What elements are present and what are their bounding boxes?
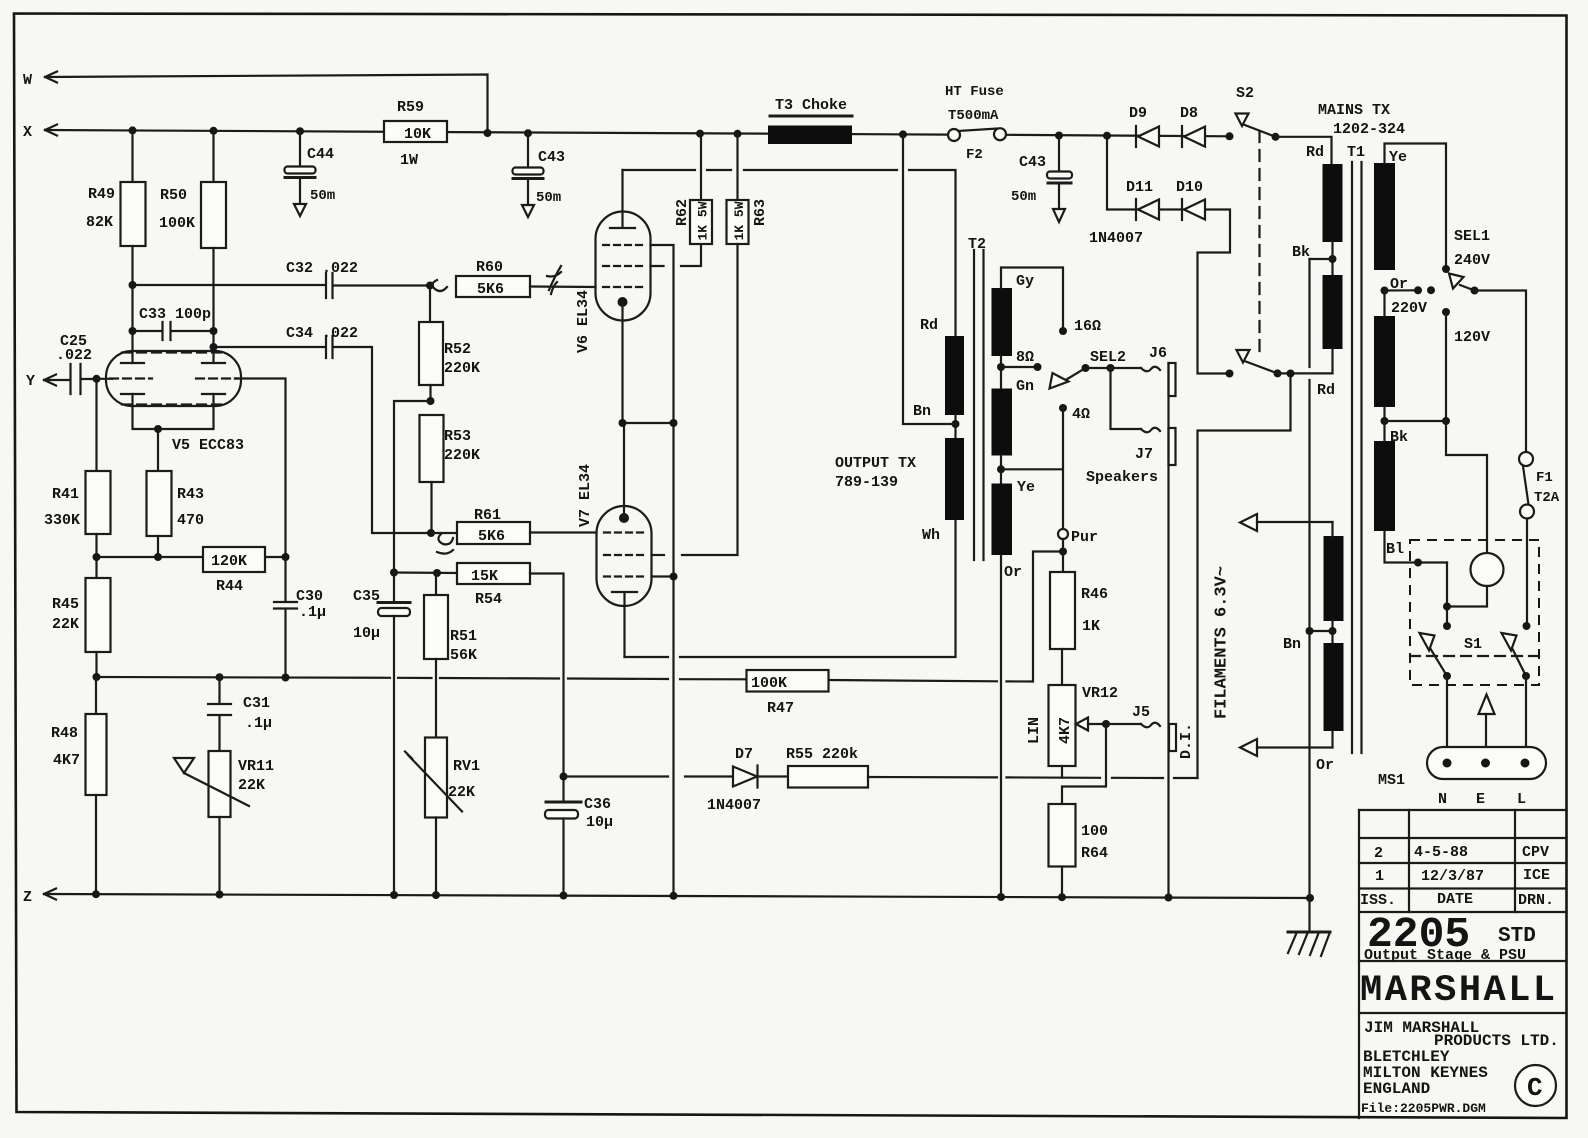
svg-text:V5 ECC83: V5 ECC83 xyxy=(172,437,244,454)
capacitor C34 xyxy=(214,325,432,533)
svg-text:22K: 22K xyxy=(238,777,265,794)
wire V7 plate to output transformer xyxy=(625,520,956,657)
svg-text:Or: Or xyxy=(1004,564,1022,581)
svg-text:R52: R52 xyxy=(444,341,471,358)
svg-text:C35: C35 xyxy=(353,588,380,605)
svg-text:J6: J6 xyxy=(1149,345,1167,362)
svg-text:F1: F1 xyxy=(1536,470,1553,486)
svg-text:R60: R60 xyxy=(476,259,503,276)
svg-text:470: 470 xyxy=(177,512,204,529)
svg-text:8Ω: 8Ω xyxy=(1016,349,1034,366)
svg-text:W: W xyxy=(23,72,32,89)
resistor R44 xyxy=(203,547,265,595)
svg-text:VR11: VR11 xyxy=(238,758,274,775)
svg-text:R49: R49 xyxy=(88,186,115,203)
earth arrow xyxy=(1479,695,1495,764)
transformer T2 secondary winding Gn xyxy=(992,389,1013,484)
fuse F1 xyxy=(1519,452,1560,626)
svg-text:15K: 15K xyxy=(471,568,498,585)
svg-text:220K: 220K xyxy=(444,360,480,377)
svg-text:Gn: Gn xyxy=(1016,378,1034,395)
resistor R47 xyxy=(747,670,829,717)
node T2 centre tap xyxy=(952,420,960,428)
transformer T1 primary winding Ye xyxy=(1374,144,1446,271)
transformer T1 labels xyxy=(1306,102,1407,166)
svg-text:D9: D9 xyxy=(1129,105,1147,122)
title block address xyxy=(1361,1019,1559,1116)
resistor R49 xyxy=(86,130,146,363)
transformer T1 primary winding Bk/Bl xyxy=(1374,421,1447,567)
svg-text:Rd: Rd xyxy=(920,317,938,334)
jack J5 (D.I.) xyxy=(1106,704,1195,759)
svg-text:L: L xyxy=(1517,791,1526,808)
svg-text:16Ω: 16Ω xyxy=(1074,318,1101,335)
resistor R64 xyxy=(1049,804,1109,897)
pentode V6 EL34 xyxy=(575,170,701,423)
svg-text:1: 1 xyxy=(1375,868,1384,885)
svg-text:Bk: Bk xyxy=(1292,244,1310,261)
svg-text:100: 100 xyxy=(1081,823,1108,840)
jack J6 xyxy=(1111,345,1176,396)
svg-text:Output Stage & PSU: Output Stage & PSU xyxy=(1364,947,1526,964)
jack J7 xyxy=(1086,368,1176,486)
node 8 ohm tap xyxy=(997,349,1042,395)
svg-text:Bn: Bn xyxy=(1283,636,1301,653)
svg-text:J5: J5 xyxy=(1132,704,1150,721)
svg-text:C34 .022: C34 .022 xyxy=(286,325,358,342)
switch S1 right pole xyxy=(1502,622,1531,763)
svg-text:22K: 22K xyxy=(448,784,475,801)
svg-text:120K: 120K xyxy=(211,553,247,570)
svg-text:240V: 240V xyxy=(1454,252,1490,269)
svg-text:R63: R63 xyxy=(752,199,769,226)
svg-text:56K: 56K xyxy=(450,647,477,664)
resistor R46 xyxy=(1050,552,1108,686)
node Y (arrow + label) xyxy=(26,373,70,390)
resistor R41 xyxy=(44,379,111,578)
svg-text:330K: 330K xyxy=(44,512,80,529)
resistor R54 xyxy=(394,563,564,777)
svg-text:C30: C30 xyxy=(296,588,323,605)
svg-text:22K: 22K xyxy=(52,616,79,633)
node Bk centre tap xyxy=(1292,244,1337,263)
wire B+ rail xyxy=(45,130,1230,136)
diode D10 xyxy=(1089,179,1205,247)
svg-text:120V: 120V xyxy=(1454,329,1490,346)
svg-text:Or: Or xyxy=(1316,757,1334,774)
transformer T2 primary lower (Wh) xyxy=(913,403,964,544)
svg-text:100K: 100K xyxy=(751,675,787,692)
svg-text:.1µ: .1µ xyxy=(245,715,272,732)
svg-text:Y: Y xyxy=(26,373,35,390)
svg-text:Rd: Rd xyxy=(1317,382,1335,399)
svg-text:Bn: Bn xyxy=(913,403,931,420)
pentode V7 EL34 xyxy=(577,423,674,657)
svg-text:82K: 82K xyxy=(86,214,113,231)
wire junction to C35 column xyxy=(394,401,431,573)
copyright mark xyxy=(1515,1065,1556,1106)
svg-text:D.I.: D.I. xyxy=(1178,723,1195,759)
potentiometer RV1 xyxy=(405,738,480,896)
switch S2 lower pole xyxy=(1198,350,1333,778)
potentiometer VR11 xyxy=(174,751,274,895)
svg-text:R50: R50 xyxy=(160,187,187,204)
capacitor C35 xyxy=(353,573,410,896)
svg-text:Pur: Pur xyxy=(1071,529,1098,546)
svg-text:ENGLAND: ENGLAND xyxy=(1363,1080,1430,1098)
diode D7 xyxy=(564,746,789,814)
svg-text:50m: 50m xyxy=(1011,189,1036,205)
svg-text:C44: C44 xyxy=(307,146,334,163)
svg-text:C: C xyxy=(1527,1073,1543,1103)
svg-text:220V: 220V xyxy=(1391,300,1427,317)
svg-text:S2: S2 xyxy=(1236,85,1254,102)
svg-text:RV1: RV1 xyxy=(453,758,480,775)
node W (arrow + label + wire to B+ corner) xyxy=(23,72,488,134)
node Pur (test point) xyxy=(1058,529,1098,556)
switch S1 assembly (dashed box) xyxy=(1410,540,1539,685)
resistor R51 xyxy=(424,573,477,738)
capacitor C31 xyxy=(208,677,272,751)
resistor R63 xyxy=(682,134,769,555)
resistor R60 xyxy=(456,259,596,298)
capacitor C33 xyxy=(133,306,214,340)
resistor R48 xyxy=(51,677,107,894)
svg-text:R45: R45 xyxy=(52,596,79,613)
svg-text:Gy: Gy xyxy=(1016,273,1034,290)
transformer T2 primary upper (Rd) xyxy=(920,317,964,438)
diode D9 xyxy=(1129,105,1159,147)
svg-text:.022: .022 xyxy=(56,347,92,364)
svg-text:VR12: VR12 xyxy=(1082,685,1118,702)
svg-text:N: N xyxy=(1438,791,1447,808)
capacitor C30 xyxy=(274,557,326,678)
resistor R45 xyxy=(52,578,111,677)
resistor R59 xyxy=(384,99,447,169)
svg-text:4K7: 4K7 xyxy=(1057,717,1074,744)
svg-text:Wh: Wh xyxy=(922,527,940,544)
svg-text:FILAMENTS 6.3V~: FILAMENTS 6.3V~ xyxy=(1213,566,1232,719)
transformer T2 secondary winding Gy xyxy=(992,268,1102,357)
title block table xyxy=(1359,810,1567,1118)
resistor R53 xyxy=(420,415,481,533)
svg-text:10µ: 10µ xyxy=(353,625,380,642)
filament winding Or xyxy=(1316,643,1344,774)
svg-text:MAINS TX: MAINS TX xyxy=(1318,102,1390,119)
filament feed arrow lower xyxy=(1240,739,1333,756)
svg-text:Bl: Bl xyxy=(1386,541,1404,558)
svg-text:C36: C36 xyxy=(584,796,611,813)
selector SEL2 xyxy=(1050,349,1127,389)
wire cathode node row xyxy=(97,556,286,558)
svg-text:X: X xyxy=(23,124,32,141)
transformer T1 core xyxy=(1352,162,1362,753)
pencil scribble G2 xyxy=(437,534,453,554)
node Or tap 220V xyxy=(1381,276,1436,317)
node Bk tap xyxy=(1381,417,1451,446)
svg-text:C43: C43 xyxy=(1019,154,1046,171)
wire Z ground rail xyxy=(44,894,1310,898)
svg-text:R47: R47 xyxy=(767,700,794,717)
svg-text:R46: R46 xyxy=(1081,586,1108,603)
svg-text:1202-324: 1202-324 xyxy=(1333,121,1405,138)
resistor R62 xyxy=(674,134,712,244)
svg-text:2: 2 xyxy=(1374,845,1383,862)
node A (V5 grid left junction) xyxy=(93,375,101,383)
svg-text:C43: C43 xyxy=(538,149,565,166)
svg-text:CPV: CPV xyxy=(1522,844,1549,861)
diode D11 xyxy=(1126,179,1159,220)
svg-text:V6 EL34: V6 EL34 xyxy=(575,290,592,353)
svg-text:R61: R61 xyxy=(474,507,501,524)
resistor R43 xyxy=(147,471,205,557)
choke T3 xyxy=(768,97,852,144)
selector SEL1 contact 240V xyxy=(1442,265,1450,273)
svg-text:T3 Choke: T3 Choke xyxy=(775,97,847,114)
svg-text:D8: D8 xyxy=(1180,105,1198,122)
svg-text:C31: C31 xyxy=(243,695,270,712)
svg-text:1W: 1W xyxy=(400,152,418,169)
wire jack sleeve to ground xyxy=(1167,363,1169,898)
capacitor C43 (left) xyxy=(513,133,566,217)
svg-text:10µ: 10µ xyxy=(586,814,613,831)
svg-text:.1µ: .1µ xyxy=(299,604,326,621)
svg-text:D7: D7 xyxy=(735,746,753,763)
svg-text:File:2205PWR.DGM: File:2205PWR.DGM xyxy=(1361,1101,1486,1116)
svg-text:S1: S1 xyxy=(1464,636,1482,653)
svg-text:C32 .022: C32 .022 xyxy=(286,260,358,277)
transformer T1 HT secondary upper (Rd) xyxy=(1323,164,1343,275)
potentiometer VR12 xyxy=(1026,685,1118,804)
title block model xyxy=(1364,910,1536,964)
resistor R50 xyxy=(159,131,226,363)
svg-text:Ye: Ye xyxy=(1017,479,1035,496)
fuse F2 (HT fuse) xyxy=(945,84,1006,163)
resistor R55 xyxy=(786,746,1198,788)
svg-text:J7: J7 xyxy=(1135,446,1153,463)
svg-text:STD: STD xyxy=(1498,925,1536,948)
capacitor C32 xyxy=(133,260,431,298)
filament winding Bk xyxy=(1324,522,1344,643)
filament feed arrow upper xyxy=(1240,514,1333,531)
svg-text:SEL1: SEL1 xyxy=(1454,228,1490,245)
resistor R61 xyxy=(431,507,597,545)
svg-text:Rd: Rd xyxy=(1306,144,1324,161)
svg-text:789-139: 789-139 xyxy=(835,474,898,491)
node cathode junction xyxy=(623,422,674,424)
svg-text:T2A: T2A xyxy=(1534,490,1560,506)
neon lamp xyxy=(1471,553,1504,586)
svg-text:50m: 50m xyxy=(536,190,561,206)
svg-text:1K 5W: 1K 5W xyxy=(732,201,747,240)
node Bn heater centre tap xyxy=(1283,627,1337,653)
transformer T2 core xyxy=(974,250,984,560)
wire V6 plate to output transformer xyxy=(623,170,956,336)
svg-text:4-5-88: 4-5-88 xyxy=(1414,844,1468,861)
svg-text:MS1: MS1 xyxy=(1378,772,1405,789)
svg-text:ISS.: ISS. xyxy=(1360,892,1396,909)
svg-text:OUTPUT TX: OUTPUT TX xyxy=(835,455,916,472)
transformer T2 secondary winding Ye/Or xyxy=(992,484,1023,898)
svg-text:R51: R51 xyxy=(450,628,477,645)
ground symbol xyxy=(1288,932,1330,956)
svg-text:D10: D10 xyxy=(1176,179,1203,196)
svg-text:MARSHALL: MARSHALL xyxy=(1360,970,1558,1012)
svg-text:1N4007: 1N4007 xyxy=(707,797,761,814)
svg-text:HT Fuse: HT Fuse xyxy=(945,84,1004,100)
svg-text:R43: R43 xyxy=(177,486,204,503)
wire NFB line xyxy=(97,552,1064,682)
svg-text:SEL2: SEL2 xyxy=(1090,349,1126,366)
svg-text:50m: 50m xyxy=(310,188,335,204)
svg-text:F2: F2 xyxy=(966,147,983,163)
svg-text:12/3/87: 12/3/87 xyxy=(1421,868,1484,885)
svg-text:5K6: 5K6 xyxy=(478,528,505,545)
transformer T1 HT secondary lower (Rd) xyxy=(1317,275,1343,399)
capacitor C25 xyxy=(56,333,97,394)
svg-text:E: E xyxy=(1476,791,1485,808)
svg-text:4Ω: 4Ω xyxy=(1072,406,1090,423)
node 4 ohm tap xyxy=(997,404,1090,529)
svg-text:100K: 100K xyxy=(159,215,195,232)
svg-text:1K 5W: 1K 5W xyxy=(696,201,711,240)
svg-text:LIN: LIN xyxy=(1026,717,1043,744)
svg-text:R59: R59 xyxy=(397,99,424,116)
svg-text:DATE: DATE xyxy=(1437,891,1473,908)
svg-text:220K: 220K xyxy=(444,447,480,464)
node R52/R53 junction xyxy=(427,397,435,405)
triode V5 ECC83 xyxy=(97,351,286,557)
svg-text:V7 EL34: V7 EL34 xyxy=(577,464,594,527)
transformer T2 label xyxy=(835,236,986,491)
capacitor C36 xyxy=(545,777,613,896)
wire cathode to ground xyxy=(672,423,674,896)
svg-text:4K7: 4K7 xyxy=(53,752,80,769)
svg-text:10K: 10K xyxy=(404,126,431,143)
svg-text:R54: R54 xyxy=(475,591,502,608)
resistor R52 xyxy=(419,286,480,402)
pencil scribble G1 xyxy=(432,266,561,294)
connector MS1 xyxy=(1378,747,1546,808)
svg-text:R48: R48 xyxy=(51,725,78,742)
svg-text:DRN.: DRN. xyxy=(1518,892,1554,909)
wire HT/heater centre taps to ground xyxy=(1308,259,1310,932)
transformer T1 primary winding Or/Bk xyxy=(1374,291,1395,422)
svg-text:T500mA: T500mA xyxy=(948,108,999,124)
switch S1 left pole xyxy=(1420,622,1452,763)
svg-text:1N4007: 1N4007 xyxy=(1089,230,1143,247)
svg-text:R44: R44 xyxy=(216,578,243,595)
svg-text:Speakers: Speakers xyxy=(1086,469,1158,486)
svg-text:R55 220k: R55 220k xyxy=(786,746,858,763)
svg-text:R62: R62 xyxy=(674,199,691,226)
svg-text:5K6: 5K6 xyxy=(477,281,504,298)
svg-text:Or: Or xyxy=(1390,276,1408,293)
svg-text:C33 100p: C33 100p xyxy=(139,306,211,323)
svg-text:T1: T1 xyxy=(1347,144,1365,161)
lamp feed wire xyxy=(1446,421,1487,553)
node B+ junction dots xyxy=(129,126,137,134)
svg-text:PRODUCTS LTD.: PRODUCTS LTD. xyxy=(1434,1032,1559,1050)
svg-text:1K: 1K xyxy=(1082,618,1100,635)
svg-text:R64: R64 xyxy=(1081,845,1108,862)
wire B+ to centre tap xyxy=(903,134,956,424)
svg-text:R53: R53 xyxy=(444,428,471,445)
selector SEL1 contact 120V xyxy=(1442,308,1490,421)
node Z (arrow + label) xyxy=(23,889,56,907)
diode D8 xyxy=(1180,105,1205,147)
svg-text:D11: D11 xyxy=(1126,179,1153,196)
selector SEL1 wiper xyxy=(1449,228,1526,452)
svg-text:R41: R41 xyxy=(52,486,79,503)
wire doubler branch xyxy=(1107,136,1230,374)
capacitor C44 xyxy=(285,131,336,216)
capacitor C43 (right) xyxy=(1011,136,1072,223)
title block revision rows xyxy=(1360,844,1554,909)
svg-text:ICE: ICE xyxy=(1523,867,1550,884)
switch S2 upper pole xyxy=(1236,85,1332,164)
svg-text:Z: Z xyxy=(23,889,32,906)
node X (arrow + label) xyxy=(23,124,57,141)
switch S2 linkage (dashed) xyxy=(1258,131,1260,358)
